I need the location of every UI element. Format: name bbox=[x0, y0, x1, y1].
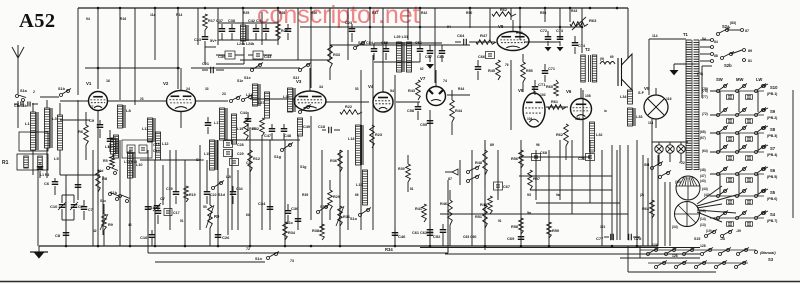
wire vertical feed 19 bbox=[419, 8, 421, 42]
capacitor C6 bbox=[44, 178, 58, 195]
svg-text:R58: R58 bbox=[511, 225, 518, 229]
svg-text:L19: L19 bbox=[237, 127, 243, 131]
lamp 3 bbox=[677, 142, 685, 153]
capacitor C77 bbox=[596, 234, 613, 241]
wire vertical drop 50 bbox=[92, 150, 94, 246]
resistor R1 bbox=[2, 132, 49, 246]
svg-text:R39: R39 bbox=[398, 167, 405, 171]
svg-text:V1: V1 bbox=[86, 81, 92, 86]
wire vertical drop 24 bbox=[394, 75, 396, 246]
svg-text:V6: V6 bbox=[566, 89, 572, 94]
svg-text:L32: L32 bbox=[596, 133, 603, 137]
coil L17 bbox=[214, 108, 227, 140]
svg-text:S10: S10 bbox=[770, 85, 778, 90]
svg-text:124: 124 bbox=[652, 243, 658, 247]
lamp 2 bbox=[666, 142, 674, 153]
wire vertical drop 26 bbox=[447, 180, 449, 253]
capacitor C34b bbox=[230, 186, 243, 204]
resistor R22 bbox=[340, 105, 362, 114]
svg-text:108: 108 bbox=[585, 94, 591, 98]
switch S1g bbox=[274, 143, 293, 160]
coil L14 bbox=[348, 125, 363, 165]
svg-text:66: 66 bbox=[355, 193, 359, 197]
svg-text:L12: L12 bbox=[162, 142, 169, 146]
coil L10b bbox=[105, 138, 118, 154]
wire HT to T1 bbox=[649, 34, 686, 95]
svg-text:R23: R23 bbox=[375, 133, 382, 137]
svg-text:C37: C37 bbox=[216, 19, 223, 23]
svg-text:C16: C16 bbox=[140, 235, 148, 240]
switch bank row S6 bbox=[710, 167, 778, 183]
svg-text:(47): (47) bbox=[700, 174, 706, 178]
svg-text:V3: V3 bbox=[296, 79, 302, 84]
wire vertical drop 53 bbox=[227, 168, 229, 235]
switch row bottom 1 bbox=[640, 248, 756, 256]
wire segment 13 bbox=[470, 41, 495, 43]
svg-text:V7: V7 bbox=[420, 76, 426, 81]
capacitor C8b bbox=[318, 125, 340, 133]
wire vertical drop 45 bbox=[657, 155, 659, 246]
wire segment 16 bbox=[225, 139, 300, 141]
svg-text:L1 R3: L1 R3 bbox=[40, 173, 49, 177]
capacitor C42 bbox=[248, 19, 262, 40]
ground arrow right bbox=[670, 64, 697, 75]
resistor R45 bbox=[488, 60, 500, 80]
wire segment 7 bbox=[191, 67, 300, 69]
wire vertical drop 13 bbox=[249, 130, 251, 246]
wire vertical drop 5 bbox=[129, 150, 131, 246]
svg-text:C1a C1b: C1a C1b bbox=[14, 104, 27, 108]
svg-text:51: 51 bbox=[180, 219, 184, 223]
wire vertical drop 17 bbox=[297, 135, 299, 230]
svg-text:L14: L14 bbox=[348, 137, 355, 141]
svg-text:24: 24 bbox=[186, 87, 190, 91]
wire vertical feed 20 bbox=[434, 8, 436, 83]
trimmer C7 bbox=[70, 195, 84, 220]
capacitor C19 bbox=[166, 186, 179, 204]
wire vertical drop 40 bbox=[611, 145, 613, 240]
svg-text:R41: R41 bbox=[415, 207, 422, 211]
wire segment 20 bbox=[519, 175, 612, 177]
svg-text:R30: R30 bbox=[311, 11, 317, 15]
tube V8 bbox=[497, 20, 529, 51]
svg-text:(79): (79) bbox=[697, 72, 703, 76]
svg-text:C49: C49 bbox=[303, 125, 310, 129]
svg-text:126: 126 bbox=[672, 254, 678, 258]
capacitor C26 bbox=[215, 228, 230, 246]
svg-text:C34: C34 bbox=[236, 187, 243, 191]
wire vertical drop 8 bbox=[169, 150, 171, 230]
wire segment 3 bbox=[60, 119, 90, 121]
ground main bbox=[18, 101, 48, 259]
svg-text:C19: C19 bbox=[166, 187, 173, 191]
switch S1b2 bbox=[33, 87, 71, 97]
wire vertical drop 16 bbox=[284, 140, 286, 246]
ground arrow C72 bbox=[545, 47, 564, 51]
capacitor C36 bbox=[285, 204, 299, 224]
svg-text:C8: C8 bbox=[55, 233, 61, 238]
wire vertical feed 17 bbox=[382, 8, 384, 92]
switch S1c bbox=[100, 193, 120, 204]
svg-text:S1g: S1g bbox=[274, 155, 282, 159]
coil L27 bbox=[258, 92, 270, 118]
svg-text:C68: C68 bbox=[540, 151, 547, 155]
capacitor C52 bbox=[427, 226, 441, 246]
resistor R17 bbox=[203, 14, 215, 30]
svg-text:69: 69 bbox=[610, 55, 614, 59]
svg-text:R49: R49 bbox=[480, 203, 487, 207]
svg-text:R43: R43 bbox=[571, 9, 577, 13]
svg-text:R33: R33 bbox=[333, 53, 340, 57]
svg-text:81: 81 bbox=[748, 59, 752, 63]
wire vertical drop 4 bbox=[119, 140, 121, 246]
svg-text:5V+: 5V+ bbox=[210, 39, 218, 43]
wire vertical feed 14 bbox=[329, 8, 331, 60]
svg-text:C7: C7 bbox=[160, 197, 165, 201]
wire segment 19 bbox=[440, 213, 628, 215]
switch bank row S10 bbox=[710, 84, 778, 100]
capacitor C16b bbox=[145, 200, 152, 220]
svg-text:R53: R53 bbox=[540, 11, 546, 15]
svg-text:R25: R25 bbox=[243, 11, 249, 15]
svg-text:C54: C54 bbox=[366, 41, 374, 45]
wire vertical feed 3 bbox=[119, 8, 121, 100]
label manual S3 bbox=[755, 251, 777, 263]
wire vertical drop 43 bbox=[636, 140, 638, 246]
wire bottom frame line bbox=[0, 281, 800, 283]
tube V9 rectifier bbox=[644, 86, 672, 128]
svg-text:R59: R59 bbox=[552, 229, 559, 233]
svg-text:74: 74 bbox=[443, 79, 447, 83]
svg-text:96: 96 bbox=[536, 143, 540, 147]
wire vertical drop 15 bbox=[269, 140, 271, 230]
svg-text:S1b: S1b bbox=[58, 87, 66, 91]
label +22 bbox=[679, 161, 685, 165]
capacitor C56 bbox=[415, 41, 423, 62]
wire segment 12 bbox=[330, 44, 470, 46]
capacitor C17L bbox=[81, 200, 93, 220]
wire vertical feed 22 bbox=[489, 8, 491, 40]
capacitor C43b bbox=[248, 51, 272, 59]
svg-text:C48: C48 bbox=[284, 134, 291, 138]
resistor R18 bbox=[244, 118, 256, 140]
wire vertical feed 8 bbox=[217, 8, 219, 45]
capacitor C74 bbox=[572, 36, 586, 54]
svg-text:S3: S3 bbox=[768, 257, 774, 262]
tube V4 bbox=[368, 80, 394, 112]
wire vertical drop 41 bbox=[619, 145, 621, 240]
svg-text:C42 C4: C42 C4 bbox=[248, 19, 262, 23]
svg-text:S1c: S1c bbox=[100, 199, 106, 203]
svg-text:64: 64 bbox=[246, 213, 250, 217]
resistor R58 bbox=[511, 218, 523, 234]
svg-text:C72: C72 bbox=[540, 29, 547, 33]
wire vertical drop 37 bbox=[582, 90, 584, 160]
capacitor C41 bbox=[285, 24, 292, 40]
coil L11 bbox=[142, 118, 155, 142]
svg-text:S2a: S2a bbox=[722, 24, 730, 29]
switch bank row S7 bbox=[710, 145, 778, 161]
wire vertical drop 19 bbox=[321, 150, 323, 230]
svg-text:46: 46 bbox=[128, 223, 132, 227]
capacitor C28 bbox=[224, 141, 244, 148]
svg-text:S1n: S1n bbox=[255, 257, 263, 261]
svg-text:R32: R32 bbox=[252, 127, 259, 131]
tube V3 bbox=[294, 68, 326, 111]
label 93 bbox=[490, 143, 532, 215]
wire vertical feed 12 bbox=[297, 8, 299, 60]
resistor R8 bbox=[96, 160, 108, 205]
svg-text:L5: L5 bbox=[54, 156, 59, 161]
svg-text:C73: C73 bbox=[556, 29, 563, 33]
svg-text:V5: V5 bbox=[518, 88, 524, 93]
svg-text:(PB.2): (PB.2) bbox=[767, 116, 778, 120]
capacitor C1b bbox=[75, 178, 82, 198]
variable resistor R9 bbox=[206, 195, 220, 246]
resistor R43 bbox=[408, 80, 420, 100]
wire lamp rail bbox=[652, 142, 688, 162]
label scatter low bbox=[93, 143, 644, 239]
wire segment 15 bbox=[546, 106, 568, 108]
wire vertical drop 22 bbox=[372, 55, 374, 230]
svg-text:R29: R29 bbox=[333, 195, 340, 199]
svg-text:R62: R62 bbox=[500, 8, 507, 12]
svg-text:84: 84 bbox=[714, 40, 718, 44]
svg-text:23: 23 bbox=[222, 92, 226, 96]
tube V2 bbox=[163, 68, 196, 128]
svg-text:50: 50 bbox=[203, 205, 207, 209]
coil L9 bbox=[108, 135, 119, 158]
capacitor C48 bbox=[281, 124, 291, 140]
wire vertical drop 48 bbox=[664, 182, 666, 246]
switch S1e2 bbox=[222, 92, 253, 103]
coil L8 bbox=[118, 105, 132, 128]
svg-text:S1m: S1m bbox=[320, 205, 329, 209]
wire vertical feed 6 bbox=[177, 8, 179, 89]
svg-text:R16: R16 bbox=[120, 17, 126, 21]
svg-text:88: 88 bbox=[714, 54, 718, 58]
wire vertical drop 47 bbox=[647, 158, 649, 246]
variable resistor R63 bbox=[570, 17, 597, 30]
wire vertical drop 9 bbox=[184, 160, 186, 246]
svg-text:L34: L34 bbox=[620, 95, 627, 99]
resistor R62 bbox=[556, 124, 568, 160]
coil L33 bbox=[628, 108, 643, 126]
svg-text:S2b: S2b bbox=[724, 63, 732, 68]
coil L1 bbox=[25, 103, 38, 175]
capacitor C9 bbox=[89, 118, 103, 138]
title label A52 bbox=[19, 10, 56, 32]
wire vertical feed 11 bbox=[277, 8, 279, 45]
wire vertical drop 35 bbox=[559, 140, 561, 200]
svg-text:R14: R14 bbox=[176, 13, 182, 17]
capacitor C34 bbox=[258, 200, 273, 220]
svg-text:V2: V2 bbox=[163, 81, 169, 86]
svg-text:R34: R34 bbox=[288, 231, 296, 235]
wire segment 4 bbox=[85, 67, 180, 69]
wire segment 1 bbox=[60, 100, 88, 102]
resistor R52 bbox=[492, 8, 516, 16]
svg-text:S15: S15 bbox=[694, 237, 700, 241]
svg-text:(72): (72) bbox=[702, 112, 708, 116]
wire vertical drop 32 bbox=[520, 140, 522, 246]
wire segment 26 bbox=[155, 261, 265, 263]
switch S1a bbox=[16, 95, 27, 102]
capacitor C20 bbox=[205, 117, 212, 134]
svg-text:(PB.7): (PB.7) bbox=[767, 219, 778, 223]
svg-text:(2): (2) bbox=[640, 193, 644, 197]
svg-text:(PB.3): (PB.3) bbox=[767, 134, 778, 138]
svg-text:91: 91 bbox=[498, 219, 502, 223]
svg-text:(44): (44) bbox=[702, 187, 708, 191]
svg-text:(14): (14) bbox=[700, 217, 706, 221]
switch S1b bbox=[110, 191, 130, 203]
svg-text:V4: V4 bbox=[368, 84, 374, 89]
wire segment 14 bbox=[524, 41, 560, 43]
wire segment 10 bbox=[447, 94, 470, 96]
svg-text:C1b: C1b bbox=[148, 206, 156, 210]
svg-text:R22: R22 bbox=[345, 105, 352, 109]
wire segment 6 bbox=[250, 98, 294, 100]
svg-text:(67): (67) bbox=[700, 136, 706, 140]
svg-text:C64: C64 bbox=[457, 33, 465, 38]
svg-text:S1e: S1e bbox=[244, 76, 251, 80]
svg-text:C44: C44 bbox=[240, 111, 248, 115]
resistor R39 bbox=[398, 155, 410, 192]
svg-text:S1d: S1d bbox=[97, 169, 103, 173]
wire top cluster bbox=[205, 23, 278, 64]
wire vertical drop 39 bbox=[601, 150, 603, 246]
svg-text:S1g: S1g bbox=[300, 165, 306, 169]
svg-text:L29 L31: L29 L31 bbox=[394, 35, 408, 39]
svg-text:L3: L3 bbox=[52, 116, 57, 121]
wire vertical feed 26 bbox=[559, 8, 561, 40]
svg-text:42: 42 bbox=[93, 229, 97, 233]
capacitor CT1 bbox=[532, 80, 547, 95]
svg-text:C18: C18 bbox=[318, 125, 325, 129]
svg-text:S1d: S1d bbox=[218, 193, 226, 197]
wire vertical drop 28 bbox=[471, 150, 473, 246]
resistor R56 bbox=[511, 150, 523, 168]
wire vertical feed 7 bbox=[197, 8, 199, 45]
wire vertical drop 11 bbox=[217, 140, 219, 246]
switch S2b bbox=[721, 49, 753, 69]
svg-text:S4: S4 bbox=[770, 212, 776, 217]
coil C49 bbox=[298, 118, 310, 136]
svg-text:T1: T1 bbox=[683, 32, 689, 37]
svg-text:L2i: L2i bbox=[226, 175, 231, 179]
capacitor C8 bbox=[55, 230, 69, 246]
switch S15 bbox=[694, 230, 733, 242]
svg-text:R63: R63 bbox=[589, 18, 597, 23]
svg-text:R64: R64 bbox=[642, 207, 650, 211]
switch S1f bbox=[293, 63, 311, 81]
svg-text:R56: R56 bbox=[511, 157, 518, 161]
capacitor C29 bbox=[224, 150, 244, 157]
svg-text:128: 128 bbox=[700, 244, 706, 248]
svg-text:C36: C36 bbox=[291, 206, 299, 211]
svg-text:S5: S5 bbox=[770, 190, 776, 195]
svg-text:R44: R44 bbox=[455, 109, 463, 113]
wire vertical drop 49 bbox=[669, 182, 671, 246]
wire segment 8 bbox=[325, 101, 369, 103]
capacitor C47 bbox=[264, 124, 275, 140]
wire segment 11 bbox=[240, 59, 330, 61]
svg-text:R50: R50 bbox=[466, 11, 472, 15]
wire vertical drop 38 bbox=[589, 140, 591, 203]
svg-text:R55: R55 bbox=[526, 69, 533, 73]
wire bank column joins bbox=[720, 90, 793, 218]
svg-text:C34: C34 bbox=[258, 201, 266, 206]
capacitor C37 bbox=[216, 19, 225, 40]
svg-text:(42): (42) bbox=[704, 193, 710, 197]
wire vertical drop 54 bbox=[237, 170, 239, 230]
label gang feeds bbox=[700, 179, 741, 241]
wire segment 25 bbox=[447, 246, 449, 253]
svg-text:C28: C28 bbox=[237, 143, 244, 147]
resistor R55 bbox=[521, 54, 533, 92]
resistor R38 bbox=[312, 224, 324, 240]
wire vertical drop 10 bbox=[199, 145, 201, 230]
svg-text:C22: C22 bbox=[210, 193, 217, 197]
svg-text:94: 94 bbox=[86, 17, 90, 21]
capacitor C1x bbox=[14, 102, 38, 109]
svg-text:S9: S9 bbox=[770, 109, 776, 114]
wire segment 27 bbox=[445, 253, 700, 255]
wire vertical drop 2 bbox=[77, 100, 79, 200]
wire vertical feed 2 bbox=[97, 8, 99, 89]
coil L30 bbox=[600, 57, 615, 64]
svg-text:(PB.5): (PB.5) bbox=[767, 175, 778, 179]
svg-text:R34: R34 bbox=[385, 247, 393, 252]
svg-text:L24a L24b: L24a L24b bbox=[237, 42, 254, 46]
svg-text:A52: A52 bbox=[19, 10, 56, 32]
coil L12 bbox=[156, 132, 169, 160]
junction bottom S1n bbox=[246, 247, 294, 263]
svg-text:R60: R60 bbox=[546, 85, 553, 89]
resistor R49 bbox=[480, 196, 492, 214]
coil L5 bbox=[54, 103, 63, 175]
capacitor C40 bbox=[263, 24, 270, 40]
trimmer C10 bbox=[50, 195, 66, 220]
label SW bbox=[716, 77, 723, 82]
svg-text:C6: C6 bbox=[44, 181, 50, 186]
svg-text:L15: L15 bbox=[204, 152, 210, 156]
svg-text:104: 104 bbox=[527, 117, 533, 121]
label 5V+ bbox=[210, 39, 218, 43]
wire segment 22 bbox=[536, 202, 620, 204]
svg-text:34: 34 bbox=[319, 85, 323, 89]
wire vertical drop 7 bbox=[154, 160, 156, 246]
svg-text:C29: C29 bbox=[237, 152, 244, 156]
coil L16 bbox=[356, 170, 368, 205]
svg-text:C47: C47 bbox=[264, 134, 271, 138]
wire vertical drop 34 bbox=[548, 150, 550, 246]
coil L34 bbox=[620, 90, 645, 104]
switch S1d bbox=[212, 181, 226, 198]
svg-text:(48): (48) bbox=[700, 168, 706, 172]
svg-text:R36: R36 bbox=[330, 159, 337, 163]
svg-text:C10: C10 bbox=[50, 204, 58, 209]
svg-text:R6: R6 bbox=[78, 129, 84, 134]
resistor R57 bbox=[528, 170, 540, 190]
wire vertical feed 25 bbox=[544, 8, 546, 22]
wire trimmer join bbox=[62, 188, 74, 230]
svg-text:R28: R28 bbox=[279, 11, 285, 15]
label bank feeds bbox=[700, 89, 708, 221]
svg-text:L27: L27 bbox=[258, 101, 265, 105]
svg-text:R19: R19 bbox=[189, 193, 196, 197]
